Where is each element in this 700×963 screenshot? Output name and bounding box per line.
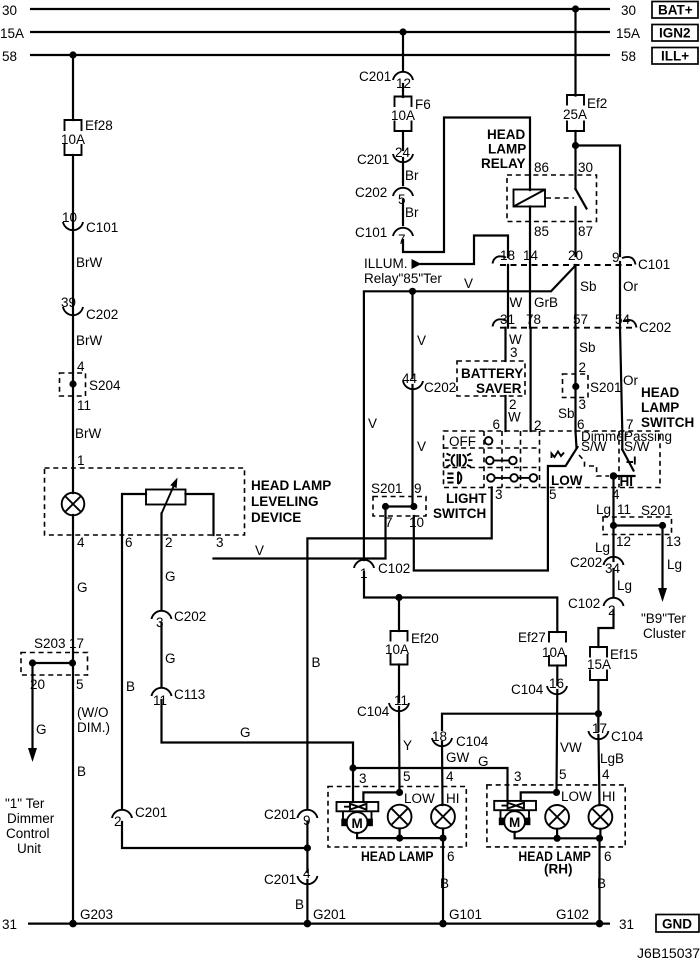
splice S201 (Lg) (603, 503, 673, 535)
label (W/O DIM.) (77, 705, 110, 735)
wire relay coil 85 to C101-14 (529, 207, 531, 328)
junction dots lamp common (right) (554, 835, 604, 842)
svg-text:(W/O: (W/O (77, 705, 109, 720)
svg-text:C202: C202 (174, 609, 206, 624)
svg-text:13: 13 (666, 534, 681, 549)
svg-text:4: 4 (303, 866, 311, 881)
svg-text:G101: G101 (449, 907, 482, 922)
svg-text:(RH): (RH) (544, 862, 573, 877)
svg-text:G201: G201 (313, 907, 346, 922)
svg-text:BrW: BrW (76, 333, 103, 348)
wire battery saver to light switch pin 6 (504, 396, 506, 431)
svg-text:BrW: BrW (76, 255, 103, 270)
svg-text:10A: 10A (385, 642, 409, 657)
label Dimmer S/W (581, 429, 629, 454)
svg-text:20: 20 (568, 248, 583, 263)
svg-text:16: 16 (549, 676, 564, 691)
wire bus30 to fuse Ef2 (574, 9, 576, 96)
svg-text:Y: Y (403, 738, 412, 753)
connector C104 pin 11 (357, 693, 409, 719)
junction dot B net (304, 844, 311, 851)
wire C202-5 to C101-7 (402, 200, 404, 225)
junction dot V net (409, 288, 416, 295)
junction dot G net (349, 764, 356, 771)
svg-text:57: 57 (573, 312, 588, 327)
wire C104-18 down (GW) to left head lamp HI pin 4 (441, 742, 444, 805)
svg-text:C201: C201 (357, 152, 389, 167)
svg-text:S201: S201 (641, 503, 673, 518)
wire Ef28 to C101-10 (72, 155, 74, 493)
svg-text:7: 7 (398, 232, 406, 247)
svg-text:ILL+: ILL+ (661, 49, 689, 64)
wire branch to C101 pin 9 (Or) (576, 146, 621, 257)
svg-text:54: 54 (615, 312, 631, 327)
svg-text:15A: 15A (587, 657, 611, 672)
wire C102-2 jog to Ef15 (598, 610, 613, 647)
wire C201-4 to ground G201 (306, 880, 308, 924)
svg-text:V: V (368, 416, 377, 431)
left head lamp box (328, 787, 466, 848)
svg-text:C104: C104 (511, 682, 544, 697)
svg-text:C104: C104 (357, 704, 390, 719)
head lamp leveling device box (45, 468, 245, 535)
svg-text:30: 30 (2, 3, 17, 18)
svg-text:11: 11 (153, 693, 167, 708)
svg-text:Lg: Lg (617, 578, 632, 593)
svg-text:V: V (417, 439, 426, 454)
svg-text:BAT+: BAT+ (658, 3, 693, 18)
wire HI contact down (pin 4) to S201 splice (612, 476, 614, 526)
wire C101-18 down (W) to C202-31 (507, 265, 509, 328)
LOW lamp (left) (388, 805, 412, 829)
svg-text:3: 3 (510, 345, 518, 360)
svg-text:LOW: LOW (404, 791, 435, 806)
svg-text:C102: C102 (378, 561, 410, 576)
right head lamp box (487, 785, 625, 847)
svg-text:G: G (240, 725, 251, 740)
junction dot bus58 / Ef28 feed (69, 51, 76, 58)
svg-text:C202: C202 (86, 307, 118, 322)
svg-text:S203: S203 (34, 636, 66, 651)
svg-text:GrB: GrB (534, 295, 558, 310)
svg-text:GND: GND (662, 917, 692, 932)
connector C201 pin 2 (112, 805, 167, 829)
svg-text:Sb: Sb (558, 406, 575, 421)
svg-text:Br: Br (405, 168, 419, 183)
svg-text:V: V (464, 276, 473, 291)
svg-text:9: 9 (414, 481, 422, 496)
wire pot wiper down to pin 2 (160, 514, 162, 536)
junction dot LOW feed (396, 789, 403, 796)
wire leveling pin 2 (G) down to C202-3 (160, 535, 162, 610)
svg-text:Sb: Sb (579, 340, 596, 355)
svg-text:18: 18 (500, 248, 515, 263)
svg-text:11: 11 (394, 693, 408, 708)
label Passing S/W (624, 429, 672, 454)
svg-text:J6B15037: J6B15037 (637, 945, 700, 961)
svg-text:C202: C202 (355, 185, 387, 200)
svg-text:LOW: LOW (551, 473, 583, 488)
svg-text:F6: F6 (415, 97, 431, 112)
ground G102 (556, 907, 603, 927)
svg-text:Ef27: Ef27 (518, 630, 546, 645)
dimmer mechanical dashed link (579, 455, 609, 476)
svg-text:15A: 15A (616, 26, 640, 41)
arrow to B9 cluster (658, 588, 667, 602)
box GND (656, 915, 699, 933)
svg-text:S/W: S/W (624, 439, 650, 454)
svg-text:78: 78 (526, 312, 541, 327)
wire C202-78 down (GrB) to light switch pin 2 (529, 328, 531, 431)
wire left head lamp pin 6 to G101 (442, 838, 444, 924)
text ILLUM. Relay"85"Ter (364, 256, 442, 286)
svg-text:M: M (509, 815, 520, 830)
connector C202 pin 3 (152, 609, 207, 630)
icon parking lamps (445, 454, 473, 467)
wire pot left terminal to pin 6 (122, 494, 146, 535)
arrow to dimmer control unit (28, 748, 37, 762)
svg-text:C104: C104 (611, 729, 644, 744)
connector C202 pin 5 (355, 185, 413, 207)
connector C104 pin 18 (432, 729, 489, 749)
wire LOW (pin5) down and to S201 splice pin 10 (414, 488, 548, 571)
fuse F6 10A (391, 97, 431, 132)
svg-text:Dimmer: Dimmer (7, 811, 55, 826)
svg-text:5: 5 (76, 677, 84, 692)
svg-text:G: G (165, 569, 176, 584)
svg-text:58: 58 (2, 49, 17, 64)
wire below C104-17 (598, 735, 599, 805)
svg-text:17: 17 (69, 636, 84, 651)
wire LOW dot to leveling motor (363, 792, 399, 802)
light switch table dividers (444, 431, 540, 488)
wire light switch pin 3 (B) left and down to C201-9 (307, 488, 491, 809)
wire V net: C101-20 diagonal to horizontal run (364, 266, 575, 560)
svg-text:DEVICE: DEVICE (251, 510, 301, 525)
splice S201 (V net) (371, 481, 426, 530)
icon head lamp beam (447, 472, 461, 484)
head lamp switch box (444, 431, 661, 488)
svg-text:V: V (255, 543, 264, 558)
svg-text:5: 5 (559, 767, 567, 782)
svg-text:Or: Or (623, 279, 639, 294)
svg-text:14: 14 (523, 248, 539, 263)
svg-text:5: 5 (549, 487, 557, 502)
svg-text:3: 3 (514, 769, 522, 784)
svg-text:Sb: Sb (580, 279, 597, 294)
box BAT+ (652, 2, 698, 19)
svg-text:B: B (597, 876, 606, 891)
ground bus 31 (28, 922, 610, 924)
svg-text:G203: G203 (80, 907, 113, 922)
wire G junction down into left head lamp pin 3 (352, 768, 354, 802)
svg-text:LEVELING: LEVELING (251, 494, 319, 509)
wire C101-9 down (Or) to C202-54 (619, 262, 621, 328)
wire C202-3 to C113-11 (160, 623, 162, 687)
wire bus15A down to C201-12 (402, 32, 404, 70)
svg-text:S201: S201 (371, 481, 403, 496)
light switch contact row OFF (485, 437, 493, 445)
svg-text:HI: HI (620, 474, 634, 489)
svg-text:SAVER: SAVER (476, 381, 522, 396)
text "1" Ter Dimmer Control Unit (5, 796, 55, 856)
wire C202-54 down (Or) to head lamp switch pin 7 (620, 328, 622, 431)
svg-text:3: 3 (359, 771, 367, 786)
connector C202 pin 44 (402, 371, 456, 395)
wire branch down to Ef20 (398, 598, 400, 632)
bus 30 (BAT+) (30, 8, 610, 10)
wire S201-7 down and left to leveling pot (V) (214, 507, 386, 559)
svg-text:S/W: S/W (581, 439, 607, 454)
connector C201 pin 4 (264, 866, 317, 887)
svg-text:30: 30 (621, 3, 636, 18)
wire C104-16 down (VW) to right head lamp LOW pin 5 (555, 690, 558, 792)
svg-text:C104: C104 (456, 734, 489, 749)
wire C104-11 down (Y) to left head lamp LOW pin 5 (398, 707, 401, 792)
fuse Ef20 10A (385, 631, 439, 665)
light switch contact row head (487, 474, 537, 482)
svg-text:OFF: OFF (449, 434, 476, 449)
relay box (head lamp relay) (507, 175, 597, 222)
wire S201-13 down (Lg) to cluster arrow (661, 526, 663, 591)
title HEAD LAMP SWITCH (641, 385, 694, 430)
svg-text:IGN2: IGN2 (659, 26, 691, 41)
splice S204 (60, 373, 122, 396)
svg-text:6: 6 (493, 417, 501, 432)
svg-text:10A: 10A (61, 132, 85, 147)
connector C104 pin 17 (588, 721, 643, 744)
svg-text:58: 58 (621, 49, 636, 64)
svg-text:Ef28: Ef28 (85, 118, 113, 133)
svg-text:HEAD: HEAD (487, 127, 526, 142)
connector C104 pin 16 (511, 676, 567, 697)
dimmer switch blade to LOW (548, 447, 578, 488)
junction dot bus15A (399, 28, 406, 35)
svg-text:W: W (508, 410, 521, 425)
splice S201 (Sb) (563, 374, 622, 398)
wire C201-24 to C202-5 (402, 158, 404, 185)
svg-text:C113: C113 (174, 687, 205, 702)
svg-text:G102: G102 (556, 907, 589, 922)
svg-text:Br: Br (405, 205, 419, 220)
wire S201-12 down to C202-34 (612, 526, 614, 562)
svg-text:C202: C202 (639, 320, 671, 335)
HI lamp (right) (589, 805, 613, 829)
text "B9"Ter Cluster (641, 611, 686, 641)
svg-text:C201: C201 (264, 872, 296, 887)
connector C102 pin 2 (568, 596, 624, 618)
svg-text:HEAD: HEAD (641, 385, 680, 400)
svg-text:25A: 25A (563, 107, 587, 122)
svg-text:Ef20: Ef20 (411, 631, 439, 646)
svg-text:C201: C201 (264, 807, 296, 822)
svg-text:4: 4 (446, 769, 454, 784)
wire Ef2 to relay 30 (574, 131, 576, 189)
junction dot bus30 / Ef2 feed (572, 5, 579, 12)
box IGN2 (652, 25, 698, 42)
wire Ef20 to C104-11 (398, 665, 400, 703)
wire Ef27 to C104-16 (556, 666, 558, 686)
svg-text:G: G (36, 722, 47, 737)
svg-text:85: 85 (534, 224, 549, 239)
svg-text:LAMP: LAMP (488, 142, 526, 157)
passing switch contact tick (627, 457, 635, 465)
connector C201 pin 9 (264, 807, 317, 828)
bus 15A (IGN2) (30, 31, 610, 33)
wire leveling lamp pin 4 down to ground bus (left column) (72, 515, 74, 924)
dimmer switch pivot wire (576, 431, 577, 448)
ground G203 (69, 907, 113, 927)
wire leveling pin 6 (B) down to C201-2 (121, 535, 123, 808)
wire ILLUM reference to C101-18 (421, 236, 508, 265)
svg-text:4: 4 (77, 359, 85, 374)
svg-text:Control: Control (6, 826, 50, 841)
connector C113 pin 11 (152, 687, 206, 708)
connector C202 pin 34 (570, 555, 624, 576)
svg-text:5: 5 (403, 769, 411, 784)
wire G net to right head lamp pin 3 (353, 768, 508, 801)
svg-text:31: 31 (619, 917, 634, 932)
wire LOW dot to leveling motor (right) (521, 792, 557, 801)
svg-text:LOW: LOW (561, 789, 592, 804)
passing switch blade (622, 431, 633, 471)
svg-text:G: G (478, 754, 489, 769)
svg-text:9: 9 (612, 250, 620, 265)
junction dot HI contact (610, 472, 618, 480)
dimmer switch flash spring squiggle (552, 452, 565, 459)
svg-text:RELAY: RELAY (481, 156, 526, 171)
wire C202-34 to C102-2 (612, 569, 614, 596)
wire C201-12 to fuse F6 (402, 84, 404, 97)
junction dot Ef20 branch (395, 594, 402, 601)
svg-text:4: 4 (77, 535, 85, 550)
svg-text:Lg: Lg (596, 502, 611, 517)
light switch contact row parking (486, 457, 517, 465)
svg-text:C102: C102 (568, 596, 600, 611)
svg-text:Lg: Lg (595, 540, 610, 555)
title HEAD LAMP (RH) (518, 849, 591, 877)
svg-text:VW: VW (560, 740, 582, 755)
svg-text:11: 11 (617, 502, 631, 517)
svg-text:Or: Or (623, 373, 639, 388)
ground G101 (439, 907, 482, 927)
wire C104-17 down (LgB) to right head lamp HI pin 4 (597, 714, 599, 731)
title HEAD LAMP RELAY (481, 127, 526, 171)
svg-text:ILLUM.: ILLUM. (364, 256, 408, 271)
svg-text:12: 12 (616, 534, 631, 549)
svg-text:Unit: Unit (17, 841, 41, 856)
svg-text:S201: S201 (590, 380, 622, 395)
svg-text:V: V (417, 333, 426, 348)
title HEAD LAMP LEVELING DEVICE (251, 478, 331, 525)
relay coil (514, 190, 546, 207)
svg-text:C202: C202 (424, 380, 456, 395)
svg-text:Ef2: Ef2 (587, 96, 607, 111)
svg-text:HI: HI (446, 791, 460, 806)
connector C101 pin 10 (62, 210, 118, 235)
svg-text:4: 4 (602, 767, 610, 782)
wire C101-7 up to relay coil 86 (403, 118, 530, 253)
svg-text:HI: HI (602, 789, 616, 804)
wire G net C113-11 to head lamp pin 3 junction (162, 700, 354, 768)
bus 58 (ILL+) (30, 54, 610, 56)
svg-text:GW: GW (446, 750, 470, 765)
leveling motor assembly (right) (494, 801, 536, 832)
svg-text:M: M (352, 816, 363, 831)
svg-text:3: 3 (216, 535, 224, 550)
svg-text:LIGHT: LIGHT (446, 491, 487, 506)
leveling motor assembly (left) (337, 802, 379, 833)
svg-text:C101: C101 (638, 257, 670, 272)
wire right lamp commons to ground (515, 829, 601, 839)
svg-text:B: B (126, 679, 135, 694)
svg-text:B: B (312, 655, 321, 670)
svg-text:2: 2 (579, 360, 587, 375)
fuse Ef28 10A (61, 118, 113, 155)
wire C201-2 to junction with B net (122, 822, 307, 848)
svg-text:G: G (165, 651, 176, 666)
svg-text:B: B (295, 897, 304, 912)
junction dot relay30/C101-9 branch (572, 142, 579, 149)
wire V net down to C202-44 (411, 291, 413, 378)
junction dot HI tie (595, 710, 602, 717)
wire F6 to C201-24 (402, 131, 404, 150)
svg-text:17: 17 (592, 721, 607, 736)
svg-text:HEAD LAMP: HEAD LAMP (361, 849, 434, 864)
svg-text:6: 6 (604, 849, 612, 864)
junction dot LOW feed (right) (553, 789, 560, 796)
wire right head lamp pin 6 to G102 (598, 838, 600, 923)
title LIGHT SWITCH (433, 491, 487, 521)
wire pot right terminal to pin 3 (186, 494, 214, 535)
svg-text:Lg: Lg (667, 557, 682, 572)
svg-text:10A: 10A (391, 108, 415, 123)
wire Ef15 down to HI tie junction (597, 680, 599, 722)
connector C101 pin 7 (355, 225, 413, 247)
arrow from ILLUM reference (412, 259, 422, 269)
svg-text:LgB: LgB (600, 751, 624, 766)
connector C201 pin 24 (357, 145, 413, 167)
svg-text:Ef15: Ef15 (610, 647, 638, 662)
box ILL+ (652, 48, 698, 65)
wire HI contact bar (614, 475, 635, 477)
wire C101-20 down (Sb) to C202-57 (574, 265, 576, 328)
junction dots lamp common (396, 835, 447, 842)
svg-text:3: 3 (579, 397, 587, 412)
svg-text:B: B (77, 764, 86, 779)
svg-text:11: 11 (77, 398, 91, 413)
svg-text:HEAD LAMP: HEAD LAMP (251, 478, 331, 493)
fuse Ef27 10A (518, 630, 566, 666)
relay armature dashed link (546, 197, 574, 199)
ground G201 (304, 907, 346, 927)
connector row C202 (493, 319, 672, 335)
svg-text:Relay"85"Ter: Relay"85"Ter (364, 271, 442, 286)
potentiometer (leveling sensor) (146, 478, 186, 514)
wire C202-57 down (Sb) to S201 splice (574, 328, 576, 431)
wire HI tie line to left head lamp HI (442, 714, 598, 730)
svg-text:10: 10 (62, 210, 77, 225)
connector C201 pin 12 (359, 69, 413, 91)
LOW lamp (right) (545, 805, 569, 829)
splice S203 (21, 636, 88, 692)
svg-text:86: 86 (534, 160, 549, 175)
wire left lamp commons to ground (357, 829, 443, 839)
wire C202-31 down (W) to battery saver (504, 328, 506, 361)
battery saver box (457, 361, 525, 396)
fuse Ef2 25A (563, 95, 607, 131)
divider passing switch compartment (618, 431, 620, 488)
